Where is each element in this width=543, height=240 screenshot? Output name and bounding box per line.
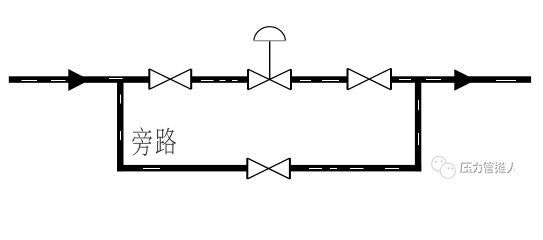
label: 路 (bypass text char 2) bbox=[156, 128, 176, 155]
control valve body (main line, middle) bbox=[248, 69, 291, 90]
wire: bypass bottom run left of bypass valve bbox=[117, 165, 247, 172]
actuator base line bbox=[254, 40, 286, 42]
wire: main pipe between gate valve V1 and control valve bbox=[191, 76, 248, 83]
wire: main inlet pipe segment bbox=[9, 76, 150, 83]
control valve diaphragm actuator dome bbox=[254, 27, 286, 41]
wire: bypass right riser bbox=[415, 80, 421, 171]
flow arrow: inlet bbox=[68, 69, 89, 91]
wire: bypass left riser bbox=[117, 79, 124, 171]
wire: main pipe between control valve and gate valve V2 bbox=[291, 76, 348, 83]
bypass valve (bottom run) bbox=[247, 158, 290, 179]
gate valve V2 (main line, right) bbox=[348, 68, 392, 89]
watermark text 压力管道人 (embossed grey/white) bbox=[461, 162, 520, 175]
decorative white centerline dashes on pipes bbox=[22, 79, 517, 169]
watermark logo doodle bbox=[432, 156, 456, 178]
gate valve V1 (main line, left) bbox=[149, 69, 191, 89]
wire: main outlet pipe segment bbox=[391, 76, 531, 83]
flow arrow: outlet bbox=[454, 69, 475, 91]
label: 旁 (bypass text char 1) bbox=[132, 127, 152, 156]
wire: bypass bottom run right of bypass valve bbox=[290, 165, 421, 172]
control valve stem bbox=[269, 41, 271, 80]
